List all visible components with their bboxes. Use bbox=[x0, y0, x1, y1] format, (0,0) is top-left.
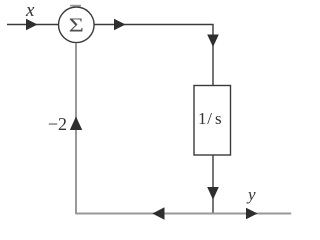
wire sum output to top-right corner bbox=[94, 25, 213, 86]
svg-text:Σ: Σ bbox=[69, 14, 84, 37]
wire feedback vertical bbox=[75, 43, 77, 214]
wire input x bbox=[7, 24, 59, 26]
svg-text:x: x bbox=[25, 0, 35, 21]
arrowhead after sum bbox=[114, 19, 126, 31]
wire bottom rail bbox=[76, 213, 291, 215]
arrowhead feedback left on bottom rail bbox=[152, 207, 164, 220]
svg-text:1: 1 bbox=[198, 109, 207, 128]
svg-text:s: s bbox=[215, 109, 222, 128]
svg-text:y: y bbox=[246, 185, 256, 204]
integrator block 1/s bbox=[194, 86, 231, 156]
svg-text:/: / bbox=[207, 109, 212, 128]
arrowhead feedback up into sum bbox=[70, 117, 82, 131]
wire integrator output down bbox=[212, 155, 214, 213]
svg-text:−2: −2 bbox=[48, 114, 67, 134]
summing junction U1 circle bbox=[59, 7, 95, 43]
arrowhead output right on bottom rail bbox=[246, 208, 258, 220]
grey tick above summing junction bbox=[70, 5, 81, 7]
arrowhead down into integrator bbox=[207, 35, 219, 48]
arrowhead input bbox=[26, 19, 38, 31]
arrowhead down to bottom rail bbox=[207, 187, 219, 200]
